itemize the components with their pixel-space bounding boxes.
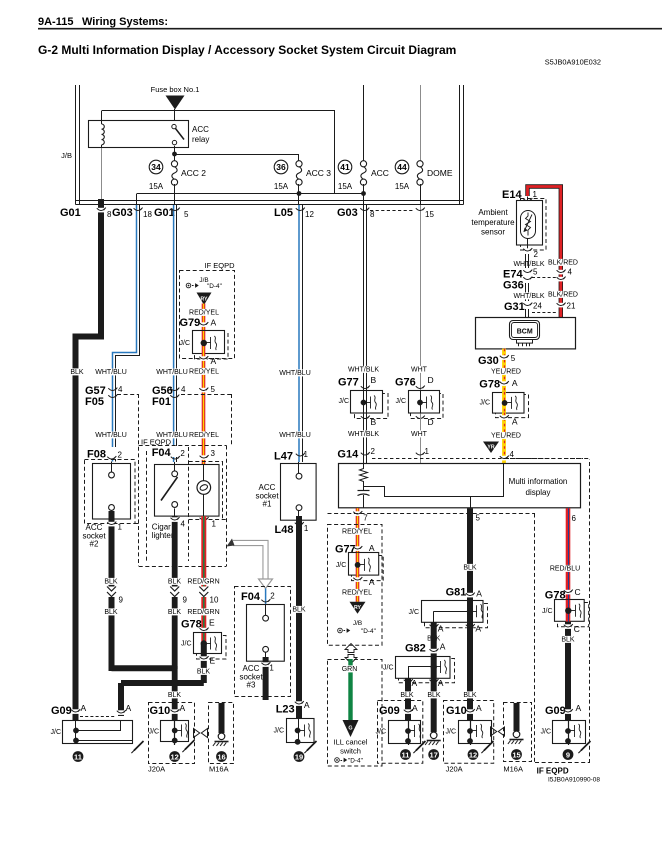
svg-text:G09: G09 — [545, 705, 566, 717]
svg-text:1: 1 — [533, 190, 538, 199]
svg-text:J/C: J/C — [480, 400, 491, 407]
svg-text:WHT/BLU: WHT/BLU — [156, 369, 188, 376]
svg-text:G77: G77 — [338, 377, 359, 389]
svg-text:L05: L05 — [274, 207, 293, 219]
svg-text:#3: #3 — [247, 681, 256, 690]
svg-text:WHT/BLU: WHT/BLU — [279, 370, 311, 377]
svg-text:41: 41 — [340, 162, 350, 172]
svg-text:switch: switch — [340, 747, 361, 756]
svg-text:5: 5 — [184, 210, 189, 219]
svg-text:BLK: BLK — [292, 607, 306, 614]
svg-text:A: A — [81, 703, 87, 713]
svg-text:ACC: ACC — [192, 125, 209, 134]
svg-text:5: 5 — [511, 354, 516, 363]
svg-text:BLK: BLK — [168, 609, 182, 616]
svg-text:2: 2 — [534, 250, 539, 259]
svg-text:15A: 15A — [149, 182, 164, 191]
svg-text:2: 2 — [118, 451, 123, 460]
svg-text:A: A — [126, 703, 132, 713]
svg-text:9: 9 — [183, 596, 188, 605]
svg-text:4: 4 — [568, 268, 573, 277]
svg-text:WHT/BLK: WHT/BLK — [348, 367, 379, 374]
svg-text:F01: F01 — [152, 396, 171, 408]
svg-text:A: A — [304, 700, 310, 710]
svg-text:4: 4 — [510, 450, 515, 459]
svg-text:G31: G31 — [504, 301, 525, 313]
svg-text:4: 4 — [181, 385, 186, 394]
svg-text:ACC: ACC — [371, 168, 389, 178]
svg-text:M16A: M16A — [503, 765, 523, 774]
svg-text:C: C — [574, 624, 580, 634]
svg-text:A: A — [369, 543, 375, 553]
svg-text:G03: G03 — [112, 207, 133, 219]
svg-text:J/C: J/C — [541, 729, 552, 736]
svg-text:G79: G79 — [180, 317, 201, 329]
svg-text:WHT/BLU: WHT/BLU — [95, 432, 127, 439]
svg-text:2: 2 — [180, 449, 185, 458]
svg-text:Ambient: Ambient — [478, 208, 508, 217]
svg-text:"D-4": "D-4" — [207, 283, 222, 290]
svg-text:WHT: WHT — [411, 431, 428, 438]
svg-text:BLK: BLK — [197, 669, 211, 676]
svg-text:G78: G78 — [181, 619, 202, 631]
svg-text:BLK: BLK — [104, 609, 118, 616]
svg-text:J/C: J/C — [51, 729, 62, 736]
svg-text:1: 1 — [425, 447, 430, 456]
svg-text:WHT/BLU: WHT/BLU — [279, 432, 311, 439]
svg-text:E: E — [210, 656, 216, 666]
svg-text:11: 11 — [74, 753, 82, 762]
svg-text:"D-4": "D-4" — [361, 628, 376, 635]
svg-text:9: 9 — [566, 751, 570, 760]
svg-text:BLK: BLK — [70, 369, 84, 376]
svg-text:G10: G10 — [150, 705, 171, 717]
svg-text:J/B: J/B — [61, 151, 72, 160]
svg-text:RY: RY — [200, 296, 208, 302]
svg-text:15A: 15A — [395, 182, 410, 191]
svg-text:G14: G14 — [337, 449, 359, 461]
svg-text:2: 2 — [371, 447, 376, 456]
svg-text:#1: #1 — [263, 500, 272, 509]
svg-text:J/B: J/B — [353, 620, 362, 627]
svg-text:A: A — [211, 318, 217, 328]
svg-text:ACC 2: ACC 2 — [181, 168, 206, 178]
svg-text:5: 5 — [476, 514, 481, 523]
svg-text:8: 8 — [370, 210, 375, 219]
svg-text:1: 1 — [304, 450, 309, 459]
svg-text:A: A — [211, 356, 217, 366]
svg-text:E14: E14 — [502, 189, 522, 201]
svg-text:A: A — [438, 624, 444, 634]
svg-text:sensor: sensor — [481, 228, 505, 237]
svg-text:5: 5 — [533, 268, 538, 277]
svg-text:15: 15 — [512, 751, 520, 760]
svg-text:RED/GRN: RED/GRN — [187, 579, 219, 586]
svg-text:L48: L48 — [275, 524, 294, 536]
svg-text:G03: G03 — [337, 207, 358, 219]
svg-text:A: A — [512, 417, 518, 427]
svg-text:RED/YEL: RED/YEL — [189, 310, 219, 317]
svg-text:A: A — [476, 703, 482, 713]
svg-text:WHT/BLK: WHT/BLK — [513, 293, 544, 300]
svg-text:WHT/BLU: WHT/BLU — [95, 369, 127, 376]
svg-text:G: G — [348, 726, 352, 732]
svg-text:A: A — [369, 577, 375, 587]
svg-text:IF EQPD: IF EQPD — [205, 261, 236, 270]
svg-text:A: A — [412, 703, 418, 713]
svg-text:lighter: lighter — [152, 531, 174, 540]
svg-text:L23: L23 — [276, 704, 295, 716]
svg-text:F04: F04 — [152, 447, 172, 459]
svg-text:J20A: J20A — [148, 765, 165, 774]
svg-text:G10: G10 — [446, 705, 467, 717]
svg-text:15: 15 — [425, 210, 434, 219]
svg-text:WHT/BLK: WHT/BLK — [348, 431, 379, 438]
svg-text:J/C: J/C — [274, 728, 285, 735]
svg-text:G30: G30 — [478, 355, 499, 367]
svg-text:44: 44 — [397, 162, 407, 172]
svg-text:G09: G09 — [379, 705, 400, 717]
svg-text:YR: YR — [487, 445, 494, 451]
svg-text:L47: L47 — [274, 451, 293, 463]
svg-text:15A: 15A — [338, 182, 353, 191]
svg-text:G01: G01 — [60, 207, 81, 219]
svg-text:1: 1 — [304, 524, 309, 533]
svg-text:1: 1 — [212, 520, 217, 529]
svg-text:RY: RY — [354, 605, 362, 611]
svg-text:WHT/BLK: WHT/BLK — [513, 261, 544, 268]
svg-text:B: B — [371, 375, 377, 385]
svg-text:A: A — [475, 624, 481, 634]
svg-text:RED/YEL: RED/YEL — [342, 529, 372, 536]
svg-text:12: 12 — [469, 751, 477, 760]
svg-text:A: A — [512, 378, 518, 388]
svg-text:BLK/RED: BLK/RED — [548, 292, 578, 299]
svg-text:A: A — [440, 642, 446, 652]
svg-text:24: 24 — [533, 302, 542, 311]
svg-text:F04: F04 — [241, 591, 261, 603]
svg-text:3: 3 — [211, 449, 216, 458]
svg-text:RED/YEL: RED/YEL — [189, 432, 219, 439]
svg-text:S5JB0A910E032: S5JB0A910E032 — [545, 58, 601, 67]
svg-text:E: E — [209, 618, 215, 628]
svg-text:G36: G36 — [503, 280, 524, 292]
svg-text:15A: 15A — [274, 182, 289, 191]
svg-text:F08: F08 — [87, 449, 106, 461]
svg-text:J/C: J/C — [339, 398, 350, 405]
svg-text:G82: G82 — [405, 643, 426, 655]
svg-text:ACC 3: ACC 3 — [306, 168, 331, 178]
svg-text:RED/YEL: RED/YEL — [342, 590, 372, 597]
svg-text:DOME: DOME — [427, 168, 453, 178]
svg-text:6: 6 — [572, 514, 577, 523]
svg-text:temperature: temperature — [471, 218, 515, 227]
svg-text:J/C: J/C — [396, 398, 407, 405]
svg-text:BLK/RED: BLK/RED — [548, 260, 578, 267]
svg-text:M16A: M16A — [209, 765, 229, 774]
svg-text:IF EQPD: IF EQPD — [537, 767, 569, 776]
svg-text:G09: G09 — [51, 705, 72, 717]
svg-text:J/C: J/C — [542, 608, 553, 615]
svg-text:11: 11 — [402, 751, 410, 760]
svg-text:BLK: BLK — [561, 637, 575, 644]
svg-text:G76: G76 — [395, 377, 416, 389]
svg-text:Multi information: Multi information — [509, 477, 568, 486]
svg-text:9: 9 — [119, 596, 124, 605]
svg-text:16: 16 — [217, 753, 225, 762]
svg-text:BLK: BLK — [463, 692, 477, 699]
svg-text:BLK: BLK — [463, 565, 477, 572]
svg-text:18: 18 — [143, 210, 152, 219]
svg-text:A: A — [476, 589, 482, 599]
svg-text:12: 12 — [305, 210, 314, 219]
svg-text:ILL cancel: ILL cancel — [334, 738, 368, 747]
svg-text:J/C: J/C — [446, 729, 457, 736]
svg-text:B: B — [371, 417, 377, 427]
svg-text:BLK: BLK — [168, 579, 182, 586]
svg-text:J/C: J/C — [336, 562, 347, 569]
svg-text:36: 36 — [276, 162, 286, 172]
svg-text:21: 21 — [567, 302, 576, 311]
svg-text:A: A — [180, 703, 186, 713]
svg-text:I5JB0A910990-08: I5JB0A910990-08 — [548, 777, 600, 784]
svg-text:7: 7 — [363, 514, 368, 523]
svg-text:RED/GRN: RED/GRN — [187, 609, 219, 616]
svg-text:4: 4 — [181, 520, 186, 529]
svg-text:RED/BLU: RED/BLU — [550, 566, 580, 573]
svg-text:YEL/RED: YEL/RED — [491, 369, 521, 376]
svg-text:GRN: GRN — [342, 666, 358, 673]
svg-text:G81: G81 — [446, 587, 467, 599]
svg-text:D: D — [428, 375, 434, 385]
svg-text:J/C: J/C — [149, 729, 160, 736]
svg-text:A: A — [438, 678, 444, 688]
svg-text:"D-4": "D-4" — [348, 758, 363, 765]
svg-text:1: 1 — [118, 523, 123, 532]
svg-text:34: 34 — [151, 162, 161, 172]
svg-text:5: 5 — [211, 385, 216, 394]
svg-text:BLK: BLK — [168, 692, 182, 699]
svg-text:A: A — [576, 703, 582, 713]
svg-text:G-2 Multi Information Display: G-2 Multi Information Display / Accessor… — [38, 43, 456, 57]
svg-text:Wiring Systems:: Wiring Systems: — [82, 16, 168, 28]
svg-text:display: display — [526, 488, 551, 497]
svg-text:J/C: J/C — [383, 665, 394, 672]
svg-text:YEL/RED: YEL/RED — [491, 433, 521, 440]
svg-text:WHT: WHT — [411, 367, 428, 374]
svg-text:Fuse box No.1: Fuse box No.1 — [151, 85, 200, 94]
svg-text:BLK: BLK — [427, 692, 441, 699]
svg-text:4: 4 — [118, 385, 123, 394]
svg-text:F05: F05 — [85, 396, 104, 408]
svg-text:J/C: J/C — [181, 641, 192, 648]
svg-text:BLK: BLK — [104, 579, 118, 586]
svg-text:BCM: BCM — [517, 329, 533, 336]
svg-text:9A-115: 9A-115 — [38, 16, 73, 28]
svg-text:D: D — [428, 417, 434, 427]
svg-text:J20A: J20A — [446, 765, 463, 774]
svg-text:J/C: J/C — [376, 729, 387, 736]
svg-text:BLK: BLK — [400, 692, 414, 699]
svg-text:RED/YEL: RED/YEL — [189, 369, 219, 376]
svg-text:2: 2 — [270, 592, 275, 601]
svg-text:12: 12 — [171, 753, 179, 762]
svg-text:C: C — [575, 587, 581, 597]
svg-text:G78: G78 — [479, 379, 500, 391]
svg-text:19: 19 — [295, 753, 303, 762]
svg-text:17: 17 — [430, 751, 438, 760]
svg-text:#2: #2 — [90, 540, 99, 549]
svg-text:1: 1 — [269, 664, 274, 673]
svg-text:10: 10 — [210, 596, 219, 605]
svg-text:relay: relay — [192, 135, 209, 144]
svg-text:A: A — [412, 678, 418, 688]
svg-text:J/C: J/C — [180, 340, 191, 347]
svg-text:J/C: J/C — [409, 609, 420, 616]
